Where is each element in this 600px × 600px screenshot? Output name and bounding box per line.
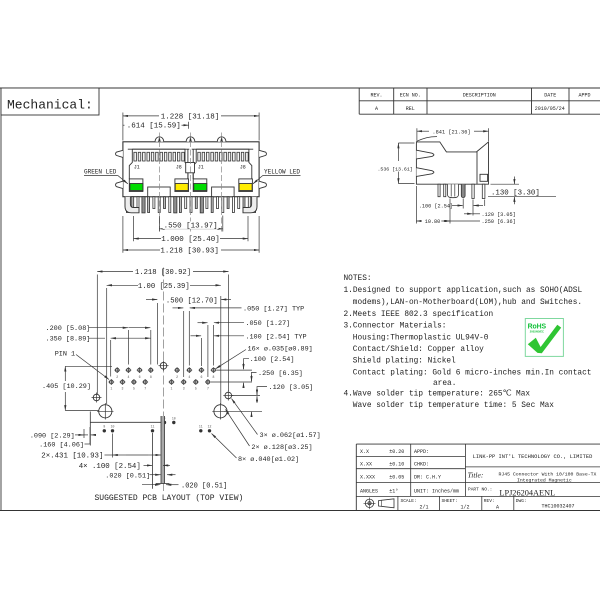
svg-text:A: A <box>496 504 499 510</box>
svg-text:APPD:: APPD: <box>414 449 429 455</box>
pcb pin holes lower row port2 <box>170 380 174 384</box>
front view center wall lines <box>187 149 189 179</box>
leader 3x 062 holes <box>232 399 258 435</box>
svg-text:UNIT: Inches/mm: UNIT: Inches/mm <box>414 488 459 494</box>
pcb pin holes upper row port1 <box>115 368 119 372</box>
svg-text:GREEN LED: GREEN LED <box>84 168 117 175</box>
svg-text:.841 [21.36]: .841 [21.36] <box>432 129 470 135</box>
pcb pin holes upper row port2 <box>175 368 179 372</box>
svg-text:.050 [1.27]: .050 [1.27] <box>245 320 290 328</box>
svg-text:J1: J1 <box>134 165 140 171</box>
dimension .405 pcb <box>65 365 112 367</box>
port contact teeth <box>134 152 137 161</box>
svg-text:PIN 1: PIN 1 <box>55 350 75 358</box>
svg-text:.120 [3.05]: .120 [3.05] <box>482 212 516 218</box>
dimension .200 pcb <box>89 327 124 329</box>
front view center wall notch <box>186 163 195 173</box>
pcb shield hole 062 top center <box>160 362 167 369</box>
front view side ear lower right <box>259 181 266 188</box>
leader 16x holes pcb <box>216 350 247 369</box>
svg-text:.100 [2.54]: .100 [2.54] <box>419 203 453 209</box>
svg-text:Integrated Magnetic: Integrated Magnetic <box>517 477 572 483</box>
pcb mounting hole 128 right <box>214 405 227 418</box>
svg-text:.536 [13.61]: .536 [13.61] <box>378 167 413 173</box>
side view leg D <box>472 184 474 198</box>
pcb shield hole 062 right <box>225 392 232 399</box>
dimension 4x .100 pcb <box>144 464 153 466</box>
Mechanical title box <box>1 88 99 115</box>
svg-text:9: 9 <box>103 425 105 429</box>
dimension .120 side view <box>484 200 486 207</box>
dimension .100 vertical pcb <box>244 359 250 369</box>
dimension 1.00 pcb <box>106 288 108 404</box>
svg-text:.350 [8.89]: .350 [8.89] <box>46 336 91 344</box>
dimension 1.218 bottom <box>122 216 124 253</box>
side view leg C <box>461 184 465 197</box>
svg-text:APPD: APPD <box>578 93 590 99</box>
RoHS checkmark <box>528 325 561 353</box>
dimension .050 TYP pcb <box>173 307 184 309</box>
front view legs <box>126 197 128 213</box>
dimension .100 side view <box>462 199 464 209</box>
front view EMI top tabs <box>155 137 164 142</box>
svg-text:.200 [5.08]: .200 [5.08] <box>46 325 91 333</box>
svg-text:Housing:Thermoplastic UL94V-0: Housing:Thermoplastic UL94V-0 <box>353 334 489 342</box>
dimension .841 side view <box>416 128 418 141</box>
svg-text:1.00 [25.39]: 1.00 [25.39] <box>138 283 190 291</box>
svg-text:.405 [10.29]: .405 [10.29] <box>42 383 91 391</box>
dimension .020 pcb left <box>150 474 161 476</box>
svg-text:J8: J8 <box>240 165 246 171</box>
svg-text:3: 3 <box>122 387 124 391</box>
title block vertical lines <box>410 444 412 496</box>
svg-text:±0.05: ±0.05 <box>389 475 404 481</box>
svg-text:A: A <box>375 106 378 112</box>
port bottom platform <box>148 187 171 197</box>
svg-text:2002/95/EC: 2002/95/EC <box>530 329 544 333</box>
svg-text:3.Connector Materials:: 3.Connector Materials: <box>344 323 447 331</box>
front view shield hook right <box>243 197 257 213</box>
svg-text:.250 [6.35]: .250 [6.35] <box>258 370 303 378</box>
port bottom platform <box>212 187 235 197</box>
svg-text:7: 7 <box>144 387 146 391</box>
svg-text:8: 8 <box>213 375 215 379</box>
dimension .500 pcb <box>146 299 157 301</box>
dimension .090 pcb <box>75 434 88 436</box>
svg-text:1: 1 <box>110 387 112 391</box>
svg-text:1.228 [31.18]: 1.228 [31.18] <box>161 113 220 121</box>
svg-text:2×.431 [10.93]: 2×.431 [10.93] <box>41 453 103 461</box>
pcb pin holes lower row port1 <box>109 380 113 384</box>
svg-text:4.Wave solder tip temperature:: 4.Wave solder tip temperature: 265℃ Max <box>344 389 531 398</box>
dimension .550 bottom <box>158 216 160 232</box>
svg-text:2: 2 <box>116 375 118 379</box>
svg-text:6: 6 <box>200 375 202 379</box>
side view leg B <box>444 184 446 197</box>
svg-text:1.Designed to support applicat: 1.Designed to support application,such a… <box>344 287 583 295</box>
front view side ear upper left <box>116 150 123 157</box>
title block outer borders <box>356 443 600 445</box>
svg-text:16× ø.035[ø0.89]: 16× ø.035[ø0.89] <box>248 345 313 353</box>
leader 2x 128 holes <box>226 409 250 446</box>
port LED window right <box>175 179 189 192</box>
svg-text:±0.20: ±0.20 <box>389 449 404 455</box>
svg-text:X.XX: X.XX <box>360 462 372 468</box>
pcb centerline dashed <box>163 268 165 492</box>
svg-text:.130 [3.30]: .130 [3.30] <box>491 189 540 197</box>
svg-text:LPJ26204AENL: LPJ26204AENL <box>499 488 555 497</box>
svg-text:modems),LAN-on-Motherboard(LOM: modems),LAN-on-Motherboard(LOM),hub and … <box>353 299 582 307</box>
port LED window right <box>239 179 253 192</box>
svg-text:11: 11 <box>199 425 203 429</box>
front view centerline middle <box>190 133 192 232</box>
svg-text:REL: REL <box>406 106 415 112</box>
port interior outline <box>129 149 188 179</box>
dimension .160 pcb <box>85 443 91 445</box>
side view inner wall line <box>476 152 478 184</box>
side view leg E <box>482 184 485 198</box>
svg-text:3: 3 <box>183 387 185 391</box>
svg-text:2010/05/24: 2010/05/24 <box>535 106 565 112</box>
svg-text:DWG:: DWG: <box>516 498 527 504</box>
svg-text:.614 [15.59]: .614 [15.59] <box>127 123 181 131</box>
front view side ear upper right <box>259 150 266 157</box>
dimension 10.80 side view <box>415 186 417 224</box>
leader PIN 1 <box>76 355 109 380</box>
pcb slot lines <box>152 433 154 489</box>
svg-text:1.218 [30.92]: 1.218 [30.92] <box>135 269 191 277</box>
svg-text:Shield plating: Nickel: Shield plating: Nickel <box>353 358 456 366</box>
dimension .536 side view <box>398 142 414 144</box>
title block horizontal lines right <box>465 466 600 468</box>
svg-text:5: 5 <box>133 387 135 391</box>
svg-text:4: 4 <box>188 375 190 379</box>
side view latch wedge lower <box>416 168 434 177</box>
svg-text:.020 [0.51]: .020 [0.51] <box>181 482 227 490</box>
title block horizontal lines left <box>356 456 465 458</box>
svg-text:X.XXX: X.XXX <box>360 475 375 481</box>
svg-text:Mechanical:: Mechanical: <box>7 98 93 113</box>
side view body outline <box>416 142 488 184</box>
svg-text:.100 [2.54]: .100 [2.54] <box>250 356 295 364</box>
svg-text:.090 [2.29]: .090 [2.29] <box>30 433 75 441</box>
front view centerline right <box>221 133 223 232</box>
projection symbol <box>365 499 373 507</box>
svg-text:X.X: X.X <box>360 449 369 455</box>
front view side ear lower left <box>116 181 123 188</box>
svg-text:2: 2 <box>176 375 178 379</box>
LED color bar right <box>175 184 188 191</box>
svg-text:.020 [0.51]: .020 [0.51] <box>105 472 150 480</box>
svg-text:Contact plating: Gold 6 micro-: Contact plating: Gold 6 micro-inches min… <box>353 369 592 377</box>
svg-text:.250 [6.36]: .250 [6.36] <box>482 219 516 225</box>
dimension .614 top <box>123 124 125 126</box>
svg-text:SCALE:: SCALE: <box>401 498 417 504</box>
dimension 2x .431 pcb <box>105 454 113 456</box>
svg-text:.100 [2.54] TYP: .100 [2.54] TYP <box>245 333 306 341</box>
svg-text:5: 5 <box>195 387 197 391</box>
dimension 1.000 bottom <box>133 216 135 241</box>
svg-text:7: 7 <box>207 387 209 391</box>
svg-text:SHEET:: SHEET: <box>442 498 458 504</box>
pcb mounting hole 128 left <box>99 405 112 418</box>
drawing frame bottom border <box>0 510 600 512</box>
svg-text:DATE: DATE <box>544 93 556 99</box>
svg-text:Wave solder tip temperature ti: Wave solder tip temperature time: 5 Sec … <box>353 402 555 410</box>
svg-text:4: 4 <box>127 375 129 379</box>
dimension .250 vertical pcb <box>252 372 257 381</box>
dimension .100 TYP pcb <box>191 335 202 337</box>
dimension .130 side view <box>491 183 520 185</box>
port LED window left <box>129 179 143 192</box>
pcb led pads 040 <box>103 429 106 432</box>
svg-text:SUGGESTED PCB LAYOUT (TOP VIEW: SUGGESTED PCB LAYOUT (TOP VIEW) <box>95 494 244 503</box>
svg-text:1.218 [30.93]: 1.218 [30.93] <box>160 248 219 256</box>
svg-text:area.: area. <box>433 380 456 388</box>
dimension 1.218 pcb <box>96 275 98 395</box>
svg-text:8× ø.040[ø1.02]: 8× ø.040[ø1.02] <box>238 456 299 464</box>
side view LED hole square <box>480 174 488 181</box>
dimension .020 pcb bottom <box>142 484 160 486</box>
dimension .120 vertical pcb <box>257 387 267 395</box>
svg-text:RJ45 Connector With 10/100 Bas: RJ45 Connector With 10/100 Base-TX <box>499 472 597 478</box>
port interior outline <box>193 149 252 179</box>
svg-text:REV:: REV: <box>484 498 495 504</box>
port ceiling line <box>128 148 190 150</box>
front view body shell <box>123 142 259 197</box>
svg-text:10: 10 <box>172 416 176 420</box>
front view shield hook left <box>125 197 139 213</box>
svg-text:6: 6 <box>139 375 141 379</box>
side view center tab <box>448 184 459 198</box>
svg-text:J1: J1 <box>198 165 204 171</box>
svg-text:THC10032407: THC10032407 <box>541 503 574 509</box>
pcb shield hole 062 left <box>93 394 100 401</box>
svg-text:REV.: REV. <box>370 93 382 99</box>
svg-text:CHKD:: CHKD: <box>414 462 429 468</box>
svg-text:1/2: 1/2 <box>460 504 469 510</box>
svg-text:DESCRIPTION: DESCRIPTION <box>463 93 496 99</box>
svg-text:10.80: 10.80 <box>425 219 441 225</box>
svg-text:8: 8 <box>150 375 152 379</box>
svg-text:2× ø.128[ø3.25]: 2× ø.128[ø3.25] <box>251 444 312 452</box>
svg-text:±1°: ±1° <box>389 488 398 494</box>
dimension 1.228 top <box>122 113 124 141</box>
RoHS logo box <box>525 319 563 357</box>
port ceiling line <box>192 148 254 150</box>
LED color bar left <box>130 184 143 191</box>
svg-text:J8: J8 <box>176 165 182 171</box>
LED color bar right <box>239 184 252 191</box>
leader 8x 040 pads <box>212 434 237 459</box>
svg-text:DR: C.H.Y: DR: C.H.Y <box>414 475 441 481</box>
svg-text:ECN NO.: ECN NO. <box>400 93 421 99</box>
front view centerline left <box>158 133 160 232</box>
dimension .250 side view <box>449 199 451 224</box>
drawing frame left border <box>0 88 2 511</box>
pcb outline lines bottom left <box>90 421 163 423</box>
svg-text:ANGLES: ANGLES <box>360 488 378 494</box>
svg-text:RoHS: RoHS <box>528 323 547 330</box>
svg-text:.160 [4.06]: .160 [4.06] <box>39 442 84 450</box>
svg-text:11: 11 <box>151 425 155 429</box>
revision table <box>358 88 360 114</box>
svg-text:.120 [3.05]: .120 [3.05] <box>269 384 314 392</box>
side view leg A <box>438 184 440 197</box>
svg-text:1.000 [25.40]: 1.000 [25.40] <box>161 236 220 244</box>
svg-text:1: 1 <box>171 387 173 391</box>
side view top shield seam arc <box>417 137 437 142</box>
drawing frame top border <box>0 87 600 89</box>
title block bottom row verticals <box>397 496 399 510</box>
dimension .350 pcb <box>89 337 106 339</box>
port LED window left <box>193 179 207 192</box>
svg-text:YELLOW LED: YELLOW LED <box>264 168 300 175</box>
svg-text:.050 [1.27] TYP: .050 [1.27] TYP <box>243 305 304 313</box>
svg-text:±0.10: ±0.10 <box>389 462 404 468</box>
svg-text:2/1: 2/1 <box>419 504 428 510</box>
side view latch wedge upper <box>416 150 434 159</box>
svg-text:NOTES:: NOTES: <box>344 275 372 283</box>
svg-text:LINK-PP INT'L TECHNOLOGY CO.,: LINK-PP INT'L TECHNOLOGY CO., LIMITED <box>473 454 593 460</box>
svg-text:4× .100 [2.54]: 4× .100 [2.54] <box>79 463 141 471</box>
svg-text:2.Meets IEEE 802.3 specificati: 2.Meets IEEE 802.3 specification <box>344 311 494 319</box>
svg-text:Title:: Title: <box>468 471 484 480</box>
svg-text:.550 [13.97]: .550 [13.97] <box>164 222 218 230</box>
svg-text:PART NO.:: PART NO.: <box>468 486 492 492</box>
svg-text:3× ø.062[ø1.57]: 3× ø.062[ø1.57] <box>260 432 321 440</box>
LED color bar left <box>194 184 207 191</box>
dimension .050 pcb <box>198 322 208 324</box>
svg-text:12: 12 <box>208 425 212 429</box>
port contact teeth <box>198 152 201 161</box>
svg-text:.500 [12.70]: .500 [12.70] <box>166 297 218 305</box>
svg-text:Contact/Shield: Copper alloy: Contact/Shield: Copper alloy <box>353 346 484 354</box>
svg-text:10: 10 <box>111 425 115 429</box>
